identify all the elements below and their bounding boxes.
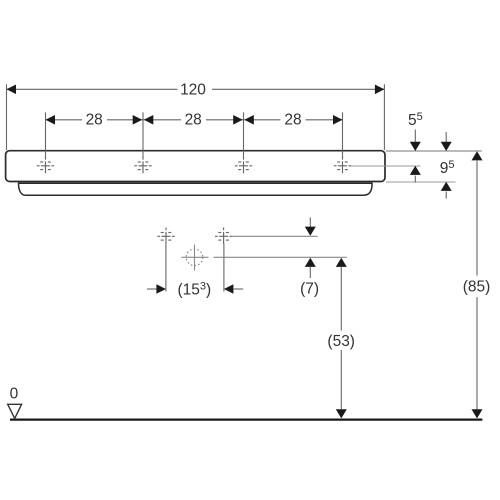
svg-text:(7): (7) xyxy=(300,280,319,297)
svg-text:(85): (85) xyxy=(463,278,491,295)
svg-text:0: 0 xyxy=(10,386,19,403)
svg-text:95: 95 xyxy=(440,159,455,177)
svg-text:28: 28 xyxy=(86,112,103,129)
svg-text:28: 28 xyxy=(284,112,301,129)
svg-text:(53): (53) xyxy=(327,333,355,350)
svg-text:(153): (153) xyxy=(178,281,212,299)
svg-text:55: 55 xyxy=(408,111,423,129)
svg-text:28: 28 xyxy=(185,112,202,129)
svg-text:120: 120 xyxy=(180,81,206,98)
